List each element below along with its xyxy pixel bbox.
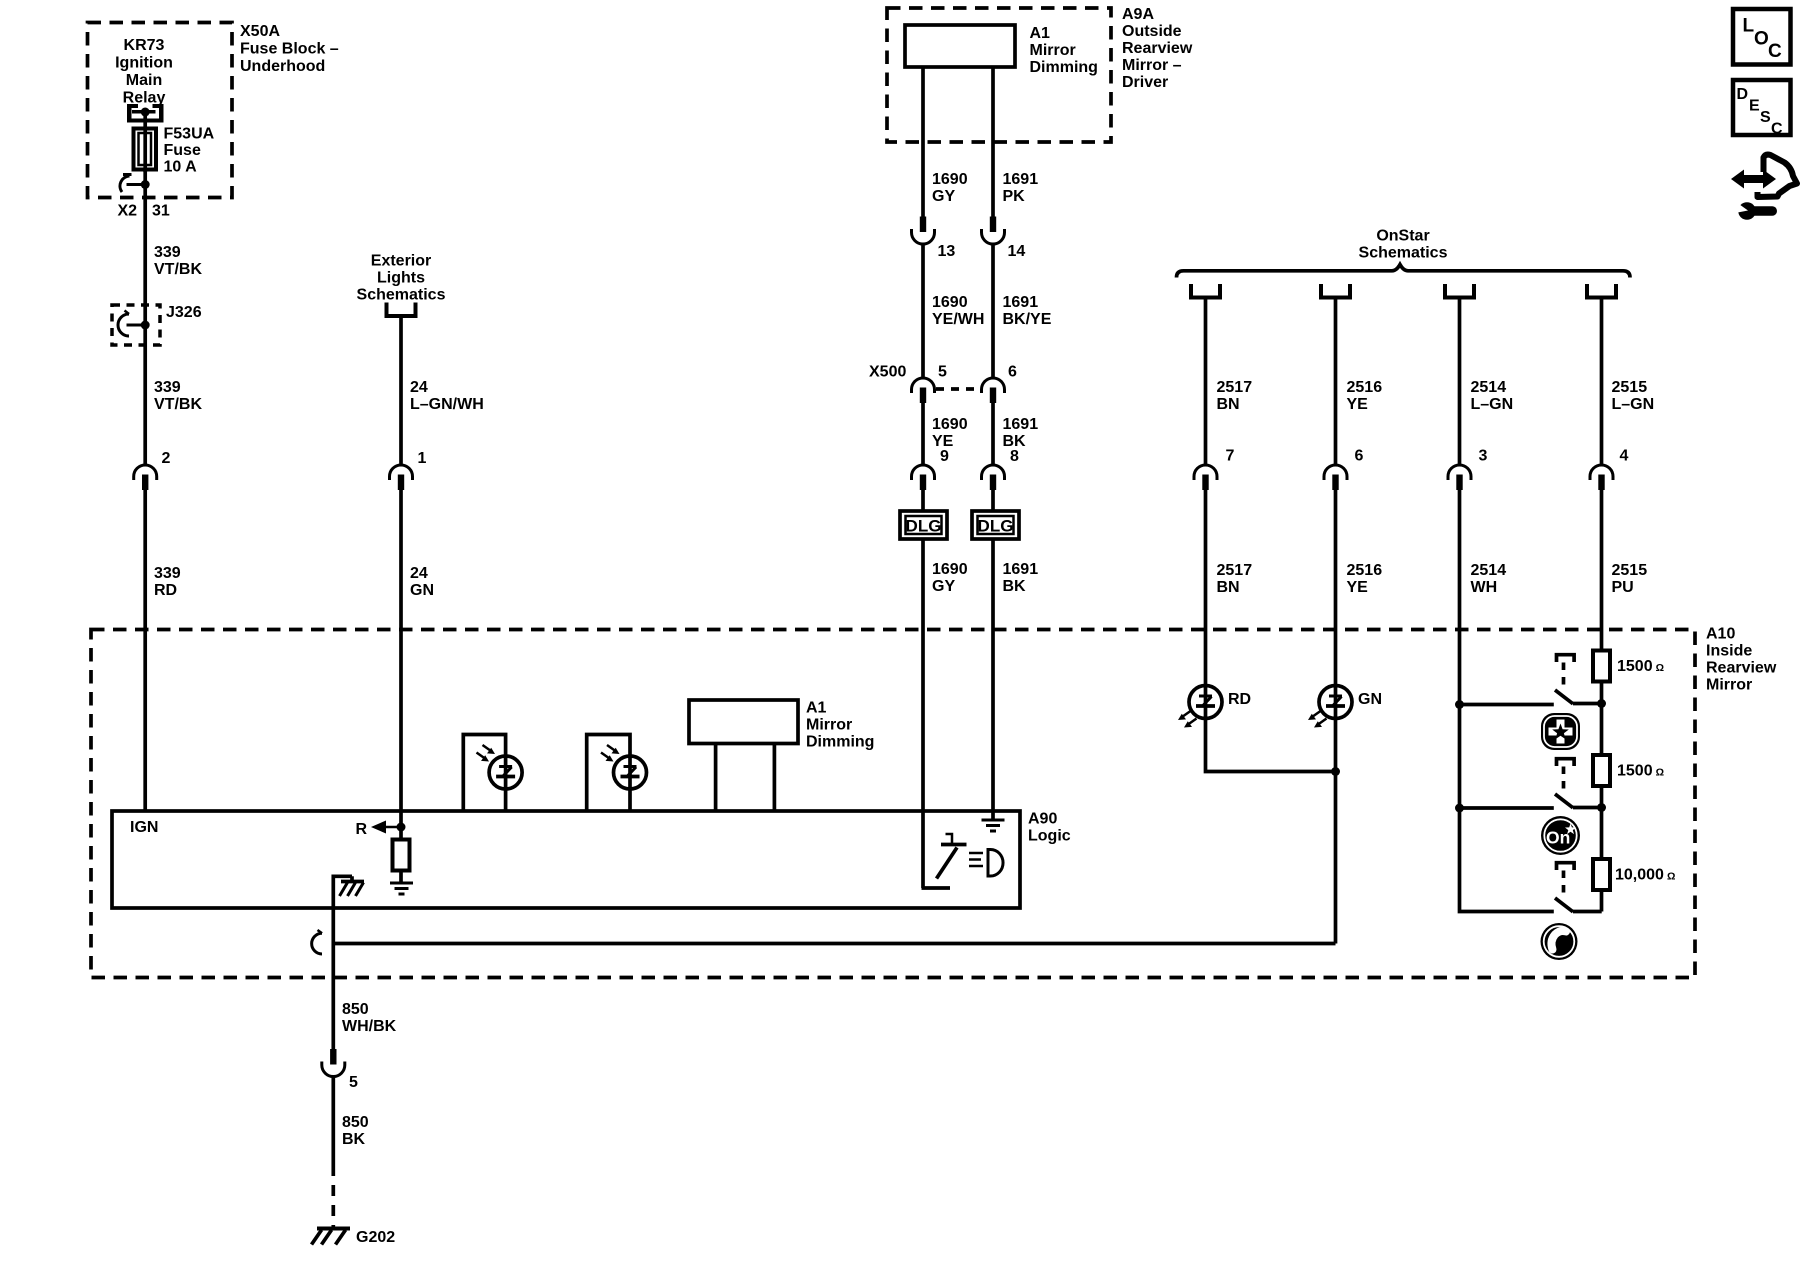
OnStar button icon (1541, 816, 1580, 855)
splice pack DLG right (972, 511, 1019, 539)
svg-text:PK: PK (1003, 188, 1026, 205)
svg-text:BK: BK (1003, 578, 1027, 595)
ladder rung 1 (1460, 703, 1554, 707)
svg-text:A90: A90 (1028, 811, 1057, 828)
icon box LOC (1733, 9, 1791, 65)
icon box DESC (1733, 80, 1791, 138)
LED RD wire (1206, 490, 1336, 772)
svg-text:2: 2 (162, 450, 171, 467)
svg-text:E: E (1749, 98, 1760, 115)
wire 1690 GY lower (921, 539, 925, 888)
mirror A9A dashed box (887, 8, 1111, 142)
svg-text:2514: 2514 (1471, 562, 1507, 579)
svg-text:GY: GY (932, 188, 955, 205)
junction LED bus (1331, 767, 1340, 776)
svg-text:WH: WH (1471, 579, 1498, 596)
wire 24 GN (399, 490, 403, 826)
wire 1691 PK (991, 67, 995, 217)
svg-text:2517: 2517 (1217, 379, 1253, 396)
ground bus wire (333, 942, 1335, 946)
svg-text:2516: 2516 (1347, 379, 1383, 396)
svg-text:6: 6 (1008, 364, 1017, 381)
svg-text:BK/YE: BK/YE (1003, 311, 1052, 328)
svg-text:1690: 1690 (932, 294, 968, 311)
svg-text:PU: PU (1612, 579, 1634, 596)
connector X500 pin 5 (912, 378, 935, 403)
relay KR73 contact (127, 104, 164, 123)
svg-text:2517: 2517 (1217, 562, 1253, 579)
wire 2514 L-GN (1458, 298, 1462, 465)
svg-text:4: 4 (1620, 448, 1629, 465)
connector 4 (1590, 465, 1613, 490)
svg-text:2515: 2515 (1612, 379, 1648, 396)
svg-text:C: C (1768, 41, 1782, 62)
svg-text:Schematics: Schematics (1359, 245, 1448, 262)
svg-text:Logic: Logic (1028, 828, 1071, 845)
dashed wire to ground (331, 1165, 335, 1228)
connector 14 (982, 217, 1005, 245)
logic block A90 (112, 811, 1020, 908)
wire 1691 BK lower (991, 539, 995, 820)
svg-text:3: 3 (1479, 448, 1488, 465)
LED RD light arrows (1178, 711, 1197, 728)
ground 1691 BK (982, 820, 1005, 831)
switch 1 (1555, 655, 1602, 704)
svg-text:VT/BK: VT/BK (154, 396, 202, 413)
svg-text:24: 24 (410, 565, 428, 582)
LED GN light arrows (1308, 711, 1327, 728)
button ladder right wire (1600, 490, 1604, 912)
wire to DLG left (921, 490, 925, 512)
LED GN wire (1334, 490, 1338, 944)
svg-text:Underhood: Underhood (240, 58, 325, 75)
svg-text:YE: YE (1347, 579, 1369, 596)
svg-text:G202: G202 (356, 1229, 395, 1246)
off-page connector OnStar 4 (1587, 284, 1616, 298)
photocell 2 light arrows (601, 745, 620, 762)
wire fuse to box edge (143, 170, 147, 198)
connector 7 (1194, 465, 1217, 490)
wire 1690 YE/WH (921, 244, 925, 378)
node R arrow (356, 821, 406, 839)
ladder rung 2 (1460, 806, 1554, 810)
svg-text:1691: 1691 (1003, 171, 1039, 188)
svg-text:BK: BK (342, 1131, 366, 1148)
junction dots ladder (1455, 700, 1464, 709)
svg-text:BN: BN (1217, 396, 1240, 413)
resistor internal R (399, 827, 403, 840)
photocell 2 wire loop (587, 735, 630, 812)
LED RD (1189, 686, 1222, 719)
svg-text:L–GN: L–GN (1612, 396, 1655, 413)
svg-text:DLG: DLG (978, 517, 1014, 536)
connector 13 (912, 217, 935, 245)
svg-text:850: 850 (342, 1114, 369, 1131)
svg-text:KR73: KR73 (124, 37, 165, 54)
svg-text:YE/WH: YE/WH (932, 311, 984, 328)
photocell 1 light arrows (477, 745, 496, 762)
button ladder left wire (1460, 490, 1554, 912)
svg-text:Lights: Lights (377, 270, 425, 287)
svg-text:5: 5 (938, 364, 947, 381)
svg-text:339: 339 (154, 244, 181, 261)
switch 2 (1555, 759, 1602, 808)
svg-text:A10: A10 (1706, 626, 1735, 643)
off-page connector OnStar 2 (1321, 284, 1350, 298)
svg-text:GN: GN (1358, 691, 1382, 708)
svg-text:2516: 2516 (1347, 562, 1383, 579)
fuse block X50A dashed box (88, 23, 233, 198)
chassis ground wire (mirror) (333, 876, 352, 1049)
svg-text:1691: 1691 (1003, 294, 1039, 311)
fuse F53UA (134, 128, 157, 172)
svg-text:14: 14 (1008, 243, 1026, 260)
X500 dashed link (936, 387, 980, 391)
svg-text:339: 339 (154, 565, 181, 582)
icon jump arrows (1731, 155, 1797, 197)
clip on ground bus (312, 930, 322, 954)
splice J326 clip (118, 311, 150, 337)
svg-text:Exterior: Exterior (371, 253, 431, 270)
svg-text:Main: Main (126, 72, 162, 89)
connector 5 (ground lead) (322, 1049, 345, 1077)
resistor 1500 ohm lower (1593, 755, 1610, 786)
svg-text:On: On (1546, 828, 1570, 848)
headlamp beam icon (969, 850, 1003, 877)
svg-text:X500: X500 (869, 364, 906, 381)
ground G202 (312, 1229, 351, 1245)
svg-text:A1: A1 (1030, 25, 1051, 42)
svg-text:6: 6 (1355, 448, 1364, 465)
mirror-dimming element A1 (inside) (689, 700, 798, 811)
photocell 1 wire loop (463, 735, 505, 812)
svg-text:DLG: DLG (906, 517, 942, 536)
svg-text:IGN: IGN (130, 819, 158, 836)
off-page connector OnStar 3 (1445, 284, 1474, 298)
connector 3 (1448, 465, 1471, 490)
off-page connector OnStar 1 (1191, 284, 1220, 298)
svg-text:Rearview: Rearview (1122, 40, 1193, 57)
svg-text:Schematics: Schematics (357, 287, 446, 304)
connector 2 (134, 465, 157, 490)
wire relay to fuse (143, 110, 147, 130)
wire 2515 L-GN (1600, 298, 1604, 465)
svg-text:1: 1 (418, 450, 427, 467)
svg-text:R: R (356, 821, 368, 838)
svg-text:Mirror: Mirror (806, 717, 852, 734)
chassis ground symbol (mirror) (340, 882, 365, 897)
svg-text:L–GN/WH: L–GN/WH (410, 396, 484, 413)
connector X500 pin 6 (982, 378, 1005, 403)
resistor 10000 ohm (1593, 859, 1610, 890)
emergency button icon (1541, 713, 1580, 750)
OnStar brace (1177, 265, 1631, 278)
photocell 1 (489, 756, 522, 789)
svg-text:OnStar: OnStar (1376, 228, 1429, 245)
svg-text:1690: 1690 (932, 561, 968, 578)
svg-text:10 A: 10 A (164, 159, 198, 176)
photocell 2 (614, 756, 647, 789)
wire 1691 BK (991, 403, 995, 465)
svg-text:J326: J326 (166, 304, 202, 321)
svg-text:A1: A1 (806, 700, 827, 717)
splice J326 dashed box (112, 305, 160, 345)
terminal clip below fuse (120, 175, 150, 193)
off-page connector Exterior Lights (387, 303, 416, 317)
svg-text:C: C (1771, 121, 1783, 138)
svg-text:Relay: Relay (123, 90, 166, 107)
wire to DLG right (991, 490, 995, 512)
wire 2516 YE (1334, 298, 1338, 465)
splice pack DLG left (900, 511, 947, 539)
connector 6 (1324, 465, 1347, 490)
svg-text:L: L (1743, 16, 1755, 37)
svg-text:850: 850 (342, 1001, 369, 1018)
wire 1691 BK/YE (991, 244, 995, 378)
mirror-dimming block A1 (outside mirror) (905, 25, 1015, 67)
svg-text:13: 13 (938, 243, 956, 260)
svg-text:2515: 2515 (1612, 562, 1648, 579)
wire 339 VT/BK upper (143, 198, 147, 465)
svg-text:Fuse: Fuse (164, 142, 201, 159)
svg-text:Mirror –: Mirror – (1122, 57, 1182, 74)
ground internal (logic) (390, 883, 413, 894)
svg-text:Inside: Inside (1706, 643, 1752, 660)
wire 1690 YE (921, 403, 925, 465)
svg-text:A9A: A9A (1122, 6, 1154, 23)
svg-text:5: 5 (349, 1074, 358, 1091)
wire 339 RD (143, 490, 147, 811)
svg-text:RD: RD (1228, 691, 1251, 708)
icon wrench (1733, 201, 1778, 220)
svg-text:BN: BN (1217, 579, 1240, 596)
svg-text:Mirror: Mirror (1706, 677, 1752, 694)
connector 1 (390, 465, 413, 490)
svg-text:7: 7 (1226, 448, 1235, 465)
svg-text:S: S (1760, 109, 1771, 126)
svg-text:Ignition: Ignition (115, 55, 173, 72)
headlamp auto switch (937, 834, 967, 879)
svg-text:RD: RD (154, 582, 177, 599)
svg-text:Mirror: Mirror (1030, 42, 1076, 59)
svg-text:Fuse Block –: Fuse Block – (240, 41, 339, 58)
wire 850 BK (331, 1077, 335, 1166)
svg-text:GY: GY (932, 578, 955, 595)
inside mirror A10 dashed box (91, 630, 1695, 978)
svg-text:1690: 1690 (932, 171, 968, 188)
svg-text:24: 24 (410, 379, 428, 396)
svg-text:Dimming: Dimming (806, 734, 874, 751)
svg-text:Dimming: Dimming (1030, 59, 1098, 76)
svg-text:WH/BK: WH/BK (342, 1018, 397, 1035)
resistor 1500 ohm upper (1593, 651, 1610, 682)
svg-text:Rearview: Rearview (1706, 660, 1777, 677)
svg-text:F53UA: F53UA (164, 126, 215, 143)
svg-text:9: 9 (940, 448, 949, 465)
svg-text:339: 339 (154, 379, 181, 396)
svg-text:VT/BK: VT/BK (154, 261, 202, 278)
svg-text:1691: 1691 (1003, 561, 1039, 578)
svg-text:2514: 2514 (1471, 379, 1507, 396)
phone button icon (1541, 923, 1578, 960)
svg-text:L–GN: L–GN (1471, 396, 1514, 413)
svg-text:1691: 1691 (1003, 416, 1039, 433)
wire 2517 BN (1204, 298, 1208, 465)
svg-text:Driver: Driver (1122, 74, 1168, 91)
svg-text:Outside: Outside (1122, 23, 1182, 40)
svg-text:31: 31 (152, 203, 170, 220)
svg-text:O: O (1754, 29, 1769, 50)
LED GN (1319, 686, 1352, 719)
wire 1690 GY (921, 67, 925, 217)
svg-text:GN: GN (410, 582, 434, 599)
wire 24 L-GN/WH (399, 316, 403, 465)
headlamp switch common foot (922, 886, 951, 890)
svg-text:1690: 1690 (932, 416, 968, 433)
connector 8 (982, 465, 1005, 490)
svg-text:X2: X2 (118, 203, 138, 220)
switch 3 (1555, 863, 1602, 912)
svg-text:D: D (1737, 86, 1749, 103)
svg-text:YE: YE (1347, 396, 1369, 413)
wire resistor to ground (399, 871, 403, 884)
svg-text:8: 8 (1010, 448, 1019, 465)
svg-text:X50A: X50A (240, 23, 280, 40)
connector 9 (912, 465, 935, 490)
